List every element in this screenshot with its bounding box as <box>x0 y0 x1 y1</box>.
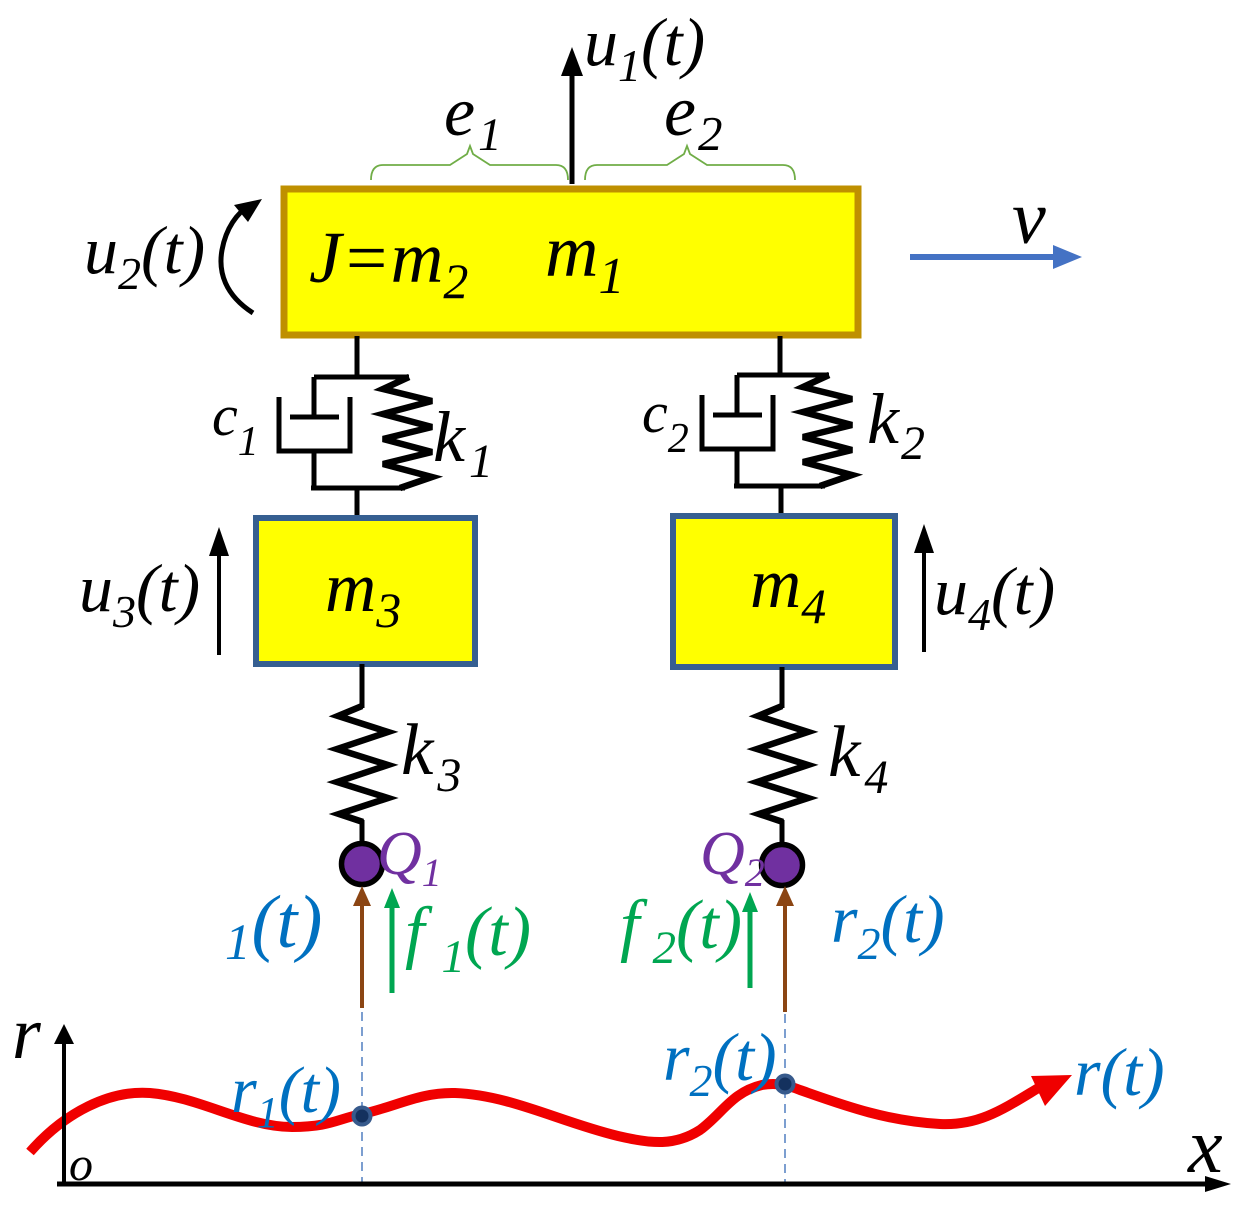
arrow u3(t) <box>217 550 221 655</box>
wire left branch top <box>314 375 409 380</box>
damper c2 cup <box>702 395 773 449</box>
svg-text:k4: k4 <box>828 711 888 804</box>
svg-text:f2(t): f2(t) <box>620 887 742 974</box>
wire main body to left suspension <box>355 336 360 379</box>
svg-text:e1: e1 <box>444 74 502 161</box>
svg-text:r(t): r(t) <box>1074 1034 1165 1110</box>
svg-text:r: r <box>12 993 42 1075</box>
damper c2 piston rod <box>735 375 740 417</box>
axis x (horizontal) <box>57 1182 1212 1187</box>
wire spring k3 to contact <box>360 820 365 844</box>
wire right branch bottom <box>734 484 825 489</box>
dashed projection line right <box>784 1014 786 1183</box>
damper c1 piston rod <box>312 377 317 419</box>
svg-text:r1(t): r1(t) <box>231 1054 341 1137</box>
road input arrow r2 (brown, right) <box>783 903 787 1012</box>
road point dot 2 <box>775 1074 796 1095</box>
contact point Q1 <box>342 844 383 885</box>
dashed projection line left <box>361 1012 363 1183</box>
damper c2 piston plate <box>713 413 762 418</box>
svg-text:c2: c2 <box>642 380 689 462</box>
wire damper c2 bottom <box>735 447 740 488</box>
wire main body to right suspension <box>778 336 783 377</box>
mass m3 <box>256 518 475 664</box>
svg-text:k2: k2 <box>867 379 925 470</box>
force arrow f1 (green, left) <box>390 905 395 993</box>
wire left branch bottom <box>311 486 405 491</box>
spring k3 <box>337 706 388 822</box>
svg-text:1(t): 1(t) <box>225 881 322 971</box>
damper c1 cup <box>279 397 350 451</box>
svg-text:o: o <box>69 1138 93 1191</box>
svg-text:u3(t): u3(t) <box>79 550 200 637</box>
road point dot 1 <box>352 1106 373 1127</box>
wire to m4 <box>779 486 784 515</box>
mass m4 <box>673 516 895 667</box>
svg-text:f1(t): f1(t) <box>405 894 531 983</box>
svg-text:k3: k3 <box>401 709 461 802</box>
contact point Q2 <box>762 845 803 886</box>
damper c1 piston plate <box>290 415 339 420</box>
rotation arrow u2 <box>221 205 253 313</box>
svg-text:v: v <box>1012 176 1046 260</box>
road profile curve r(t) <box>30 1084 1040 1152</box>
svg-text:Q2: Q2 <box>700 820 765 895</box>
brace e1 <box>371 146 568 180</box>
wire m4 to spring k4 <box>780 667 785 708</box>
wire spring k4 to contact <box>780 820 785 844</box>
brace e2 <box>585 146 795 180</box>
wire right branch top <box>737 373 829 378</box>
road input arrow r1 (brown, left) <box>360 903 364 1008</box>
main body mass J=m2 / m1 <box>284 189 858 335</box>
svg-text:r2(t): r2(t) <box>831 881 945 969</box>
svg-text:r2(t): r2(t) <box>663 1019 777 1106</box>
axis r (vertical) <box>62 1042 66 1185</box>
svg-text:e2: e2 <box>664 71 722 161</box>
spring k1 <box>383 377 432 488</box>
svg-text:c1: c1 <box>212 383 259 465</box>
velocity arrow v <box>910 254 1058 260</box>
spring k4 <box>757 706 808 822</box>
arrow u4(t) <box>922 548 926 652</box>
svg-text:u4(t): u4(t) <box>934 553 1055 640</box>
svg-text:u2(t): u2(t) <box>84 212 205 299</box>
arrow u1(t) <box>570 72 575 184</box>
wire to m3 <box>355 488 360 517</box>
force arrow f2 (green, right) <box>748 909 753 988</box>
spring k2 <box>803 375 852 486</box>
svg-text:x: x <box>1187 1102 1223 1189</box>
svg-text:k1: k1 <box>433 397 493 488</box>
wire m3 to spring k3 <box>360 664 365 708</box>
wire damper c1 bottom <box>312 449 317 490</box>
svg-text:Q1: Q1 <box>377 820 442 895</box>
